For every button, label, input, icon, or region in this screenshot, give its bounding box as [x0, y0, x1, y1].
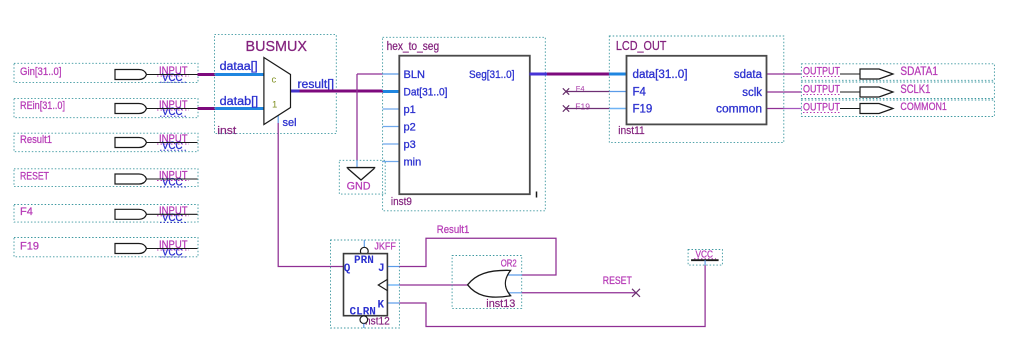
LCD_OUT stub sclk — [766, 91, 784, 93]
OR2 stub in1 — [503, 274, 522, 276]
GND bar — [347, 167, 376, 169]
svg-text:p2: p2 — [404, 122, 416, 134]
svg-text:result[]: result[] — [298, 79, 335, 91]
hex_to_seg stub p1 — [383, 108, 400, 110]
svg-text:sel: sel — [283, 117, 297, 129]
svg-text:p1: p1 — [404, 104, 416, 116]
svg-text:RESET: RESET — [603, 275, 632, 287]
svg-text:hex_to_seg: hex_to_seg — [387, 41, 440, 53]
svg-text:K: K — [378, 300, 385, 312]
wire bus Gin to dataa — [198, 73, 216, 76]
svg-text:inst9: inst9 — [391, 196, 412, 208]
svg-text:sclk: sclk — [742, 87, 762, 99]
svg-text:Result1: Result1 — [20, 134, 52, 146]
input pin REin[31..0] — [14, 99, 198, 118]
svg-text:BUSMUX: BUSMUX — [246, 39, 308, 55]
output pin COMMON1 — [801, 100, 994, 117]
svg-text:F4: F4 — [633, 87, 647, 99]
svg-text:VCC: VCC — [162, 106, 183, 118]
svg-text:COMMON1: COMMON1 — [900, 101, 947, 113]
svg-text:common: common — [716, 104, 762, 116]
svg-text:SDATA1: SDATA1 — [900, 66, 938, 78]
wire K to VCC — [399, 265, 705, 326]
input pin Gin[31..0] — [14, 63, 198, 84]
svg-text:Dat[31..0]: Dat[31..0] — [404, 87, 448, 99]
svg-text:VCC: VCC — [162, 72, 183, 84]
JKFF stub PRN — [363, 240, 365, 247]
svg-text:1: 1 — [272, 100, 277, 111]
mux U BUSMUX — [215, 35, 337, 137]
svg-text:Seg[31..0]: Seg[31..0] — [469, 69, 515, 81]
svg-text:F19: F19 — [575, 101, 590, 111]
svg-text:c: c — [272, 75, 277, 86]
VCC bar — [691, 259, 719, 261]
or gate OR2 inst13 — [452, 256, 522, 311]
hex_to_seg stub BLN — [383, 73, 400, 75]
input pin RESET — [14, 169, 198, 189]
svg-text:p3: p3 — [404, 139, 416, 151]
hex_to_seg stub Dat (bus) — [383, 90, 400, 93]
hex_to_seg body — [399, 56, 530, 195]
svg-text:inst13: inst13 — [486, 298, 515, 310]
svg-text:VCC: VCC — [162, 177, 183, 189]
svg-text:REin[31..0]: REin[31..0] — [20, 100, 65, 112]
output pin SDATA1 — [801, 64, 994, 81]
hex_to_seg stub p3 — [383, 143, 400, 145]
svg-text:inst: inst — [217, 125, 236, 137]
BUSMUX port stub sel — [277, 114, 279, 123]
input pin Result1 — [14, 133, 198, 152]
cursor I mark — [536, 192, 538, 198]
OR2 gate shape — [468, 270, 511, 297]
wire common to COMMON1 — [784, 108, 802, 110]
svg-text:VCC: VCC — [162, 140, 183, 152]
VCC stub — [704, 260, 706, 265]
svg-text:OUTPUT: OUTPUT — [803, 84, 840, 96]
wire OR2 output to clk — [399, 284, 467, 286]
svg-text:LCD_OUT: LCD_OUT — [616, 38, 667, 53]
svg-text:OUTPUT: OUTPUT — [803, 102, 840, 114]
input pin F19 — [14, 238, 198, 259]
BUSMUX port stub result — [290, 90, 300, 93]
OR2 stub in2 — [503, 292, 522, 294]
JKFF stub K — [387, 302, 399, 304]
dangling X F4 — [563, 88, 569, 94]
LCD_OUT body — [627, 56, 767, 125]
wire sel to Q — [278, 123, 343, 267]
svg-text:RESET: RESET — [20, 171, 49, 183]
svg-text:BLN: BLN — [404, 69, 425, 81]
wire J to OR2 input (Result1 net) — [399, 238, 556, 275]
wire F19 dangling — [566, 108, 609, 110]
hex_to_seg stub p2 — [383, 126, 400, 128]
JKFF stub J — [387, 266, 399, 268]
svg-text:F4: F4 — [20, 206, 33, 218]
svg-text:datab[]: datab[] — [220, 96, 259, 108]
LCD_OUT stub common — [766, 108, 784, 110]
power symbol VCC — [688, 249, 722, 266]
wire bus REin to datab — [198, 107, 216, 110]
hex_to_seg stub min — [383, 161, 400, 163]
svg-text:sdata: sdata — [734, 69, 763, 81]
svg-text:data[31..0]: data[31..0] — [633, 69, 688, 81]
JKFF bubble CLRN — [360, 316, 368, 324]
wire F4 dangling — [566, 91, 609, 93]
svg-text:GND: GND — [347, 181, 371, 193]
svg-text:SCLK1: SCLK1 — [900, 84, 930, 96]
svg-text:F19: F19 — [20, 240, 39, 252]
LCD_OUT stub F4 — [609, 91, 627, 93]
ground symbol GND — [339, 160, 385, 194]
wire bus Seg to data — [547, 73, 610, 76]
BUSMUX port stub datab — [215, 107, 264, 110]
component LCD_OUT inst11 — [609, 36, 784, 143]
svg-text:OUTPUT: OUTPUT — [803, 66, 840, 78]
svg-text:Result1: Result1 — [437, 224, 470, 236]
svg-text:min: min — [404, 157, 422, 169]
BUSMUX port stub dataa — [215, 73, 264, 76]
wire sdata to SDATA1 — [784, 73, 802, 75]
svg-text:Q: Q — [344, 263, 351, 275]
wire BLN to GND net — [356, 74, 358, 160]
GND stub — [356, 160, 358, 167]
wire sclk to SCLK1 — [784, 91, 802, 93]
JKFF stub clk — [387, 284, 399, 286]
wire RESET dangling — [522, 292, 636, 294]
JKFF clock chevron — [378, 279, 387, 290]
LCD_OUT stub data (bus) — [609, 73, 627, 76]
LCD_OUT stub sdata — [766, 73, 784, 75]
mux body shape — [264, 58, 291, 125]
input pin F4 — [14, 205, 198, 225]
JKFF body — [344, 254, 388, 316]
svg-text:JKFF: JKFF — [374, 240, 396, 252]
svg-text:J: J — [378, 263, 385, 275]
svg-text:OR2: OR2 — [501, 258, 517, 270]
GND vee — [348, 168, 375, 180]
JKFF stub CLRN — [363, 324, 365, 328]
flip-flop JKFF inst12 — [331, 240, 400, 328]
svg-text:PRN: PRN — [354, 255, 374, 267]
svg-text:F19: F19 — [633, 104, 653, 116]
output pin SCLK1 — [801, 82, 994, 99]
svg-text:Gin[31..0]: Gin[31..0] — [20, 66, 62, 78]
hex_to_seg stub Seg — [530, 73, 548, 76]
dangling X F19 — [563, 105, 569, 111]
wire bus result to Dat — [300, 90, 384, 93]
svg-text:dataa[]: dataa[] — [220, 61, 258, 73]
component hex_to_seg inst9 — [383, 37, 547, 211]
dangling X RESET — [632, 289, 640, 297]
LCD_OUT stub F19 — [609, 108, 627, 110]
JKFF bubble PRN — [360, 247, 368, 255]
svg-text:inst11: inst11 — [618, 125, 645, 137]
